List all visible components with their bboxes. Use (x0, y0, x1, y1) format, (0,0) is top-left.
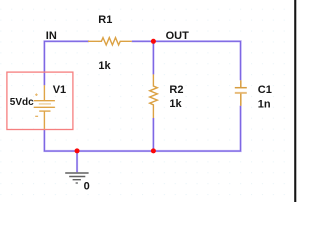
C1 bottom plate (235, 92, 247, 94)
svg-text:R1: R1 (98, 14, 112, 26)
V1 plus mark (35, 93, 38, 96)
svg-text:C1: C1 (258, 84, 272, 96)
C1 top plate (235, 87, 247, 89)
svg-text:1k: 1k (98, 60, 111, 72)
voltage source V1 (DC battery symbol) (34, 85, 55, 129)
junction dot at R2 bottom on bottom rail (151, 148, 156, 153)
svg-text:1k: 1k (169, 98, 182, 110)
svg-text:1n: 1n (258, 98, 271, 110)
V1 bottom pin lead (43, 111, 45, 129)
grid dots (0, 0, 297, 202)
wire: bottom ground rail from V1 bottom pin to C1 bottom pin (44, 106, 240, 151)
selection box around V1 (7, 72, 73, 129)
V1 plate 4 (short) (39, 110, 50, 112)
C1 bottom pin lead (240, 94, 242, 106)
junction dot at ground stem on bottom rail (75, 148, 80, 153)
V1 top pin lead (43, 85, 45, 101)
ground bar 3 (73, 179, 81, 181)
wire: R1 pin 2 to node OUT and on to C1 top pin (132, 41, 241, 80)
ground bar 2 (69, 176, 85, 178)
junction dot at node OUT (151, 39, 156, 44)
svg-text:0: 0 (84, 181, 90, 193)
V1 plate 3 (long) (34, 106, 55, 108)
resistor R2 (vertical zigzag with pin leads) (150, 74, 158, 118)
wire: ground stem from bottom rail junction (76, 151, 78, 172)
svg-text:IN: IN (46, 30, 57, 42)
ground bar 1 (65, 172, 88, 174)
svg-text:R2: R2 (169, 84, 183, 96)
wire: node OUT down to R2 pin 1 (152, 41, 154, 74)
svg-text:5Vdc: 5Vdc (10, 97, 34, 108)
wire: R2 pin 2 down to bottom rail junction (152, 118, 154, 151)
resistor R1 (zigzag with pin leads) (88, 38, 132, 45)
C1 top pin lead (240, 80, 242, 87)
V1 plate 1 (long) (34, 100, 55, 102)
svg-text:OUT: OUT (166, 30, 190, 42)
capacitor C1 (235, 80, 247, 106)
wire: node IN corner, V1 top pin up to IN and right to R1 pin 1 (44, 41, 89, 85)
ground symbol (net 0) (65, 173, 88, 183)
svg-text:V1: V1 (53, 84, 66, 96)
window edge (black bar) at right (294, 0, 296, 202)
ground bar 4 (76, 182, 78, 184)
V1 minus mark (35, 115, 38, 117)
V1 plate 2 (short, faint) (39, 103, 51, 105)
